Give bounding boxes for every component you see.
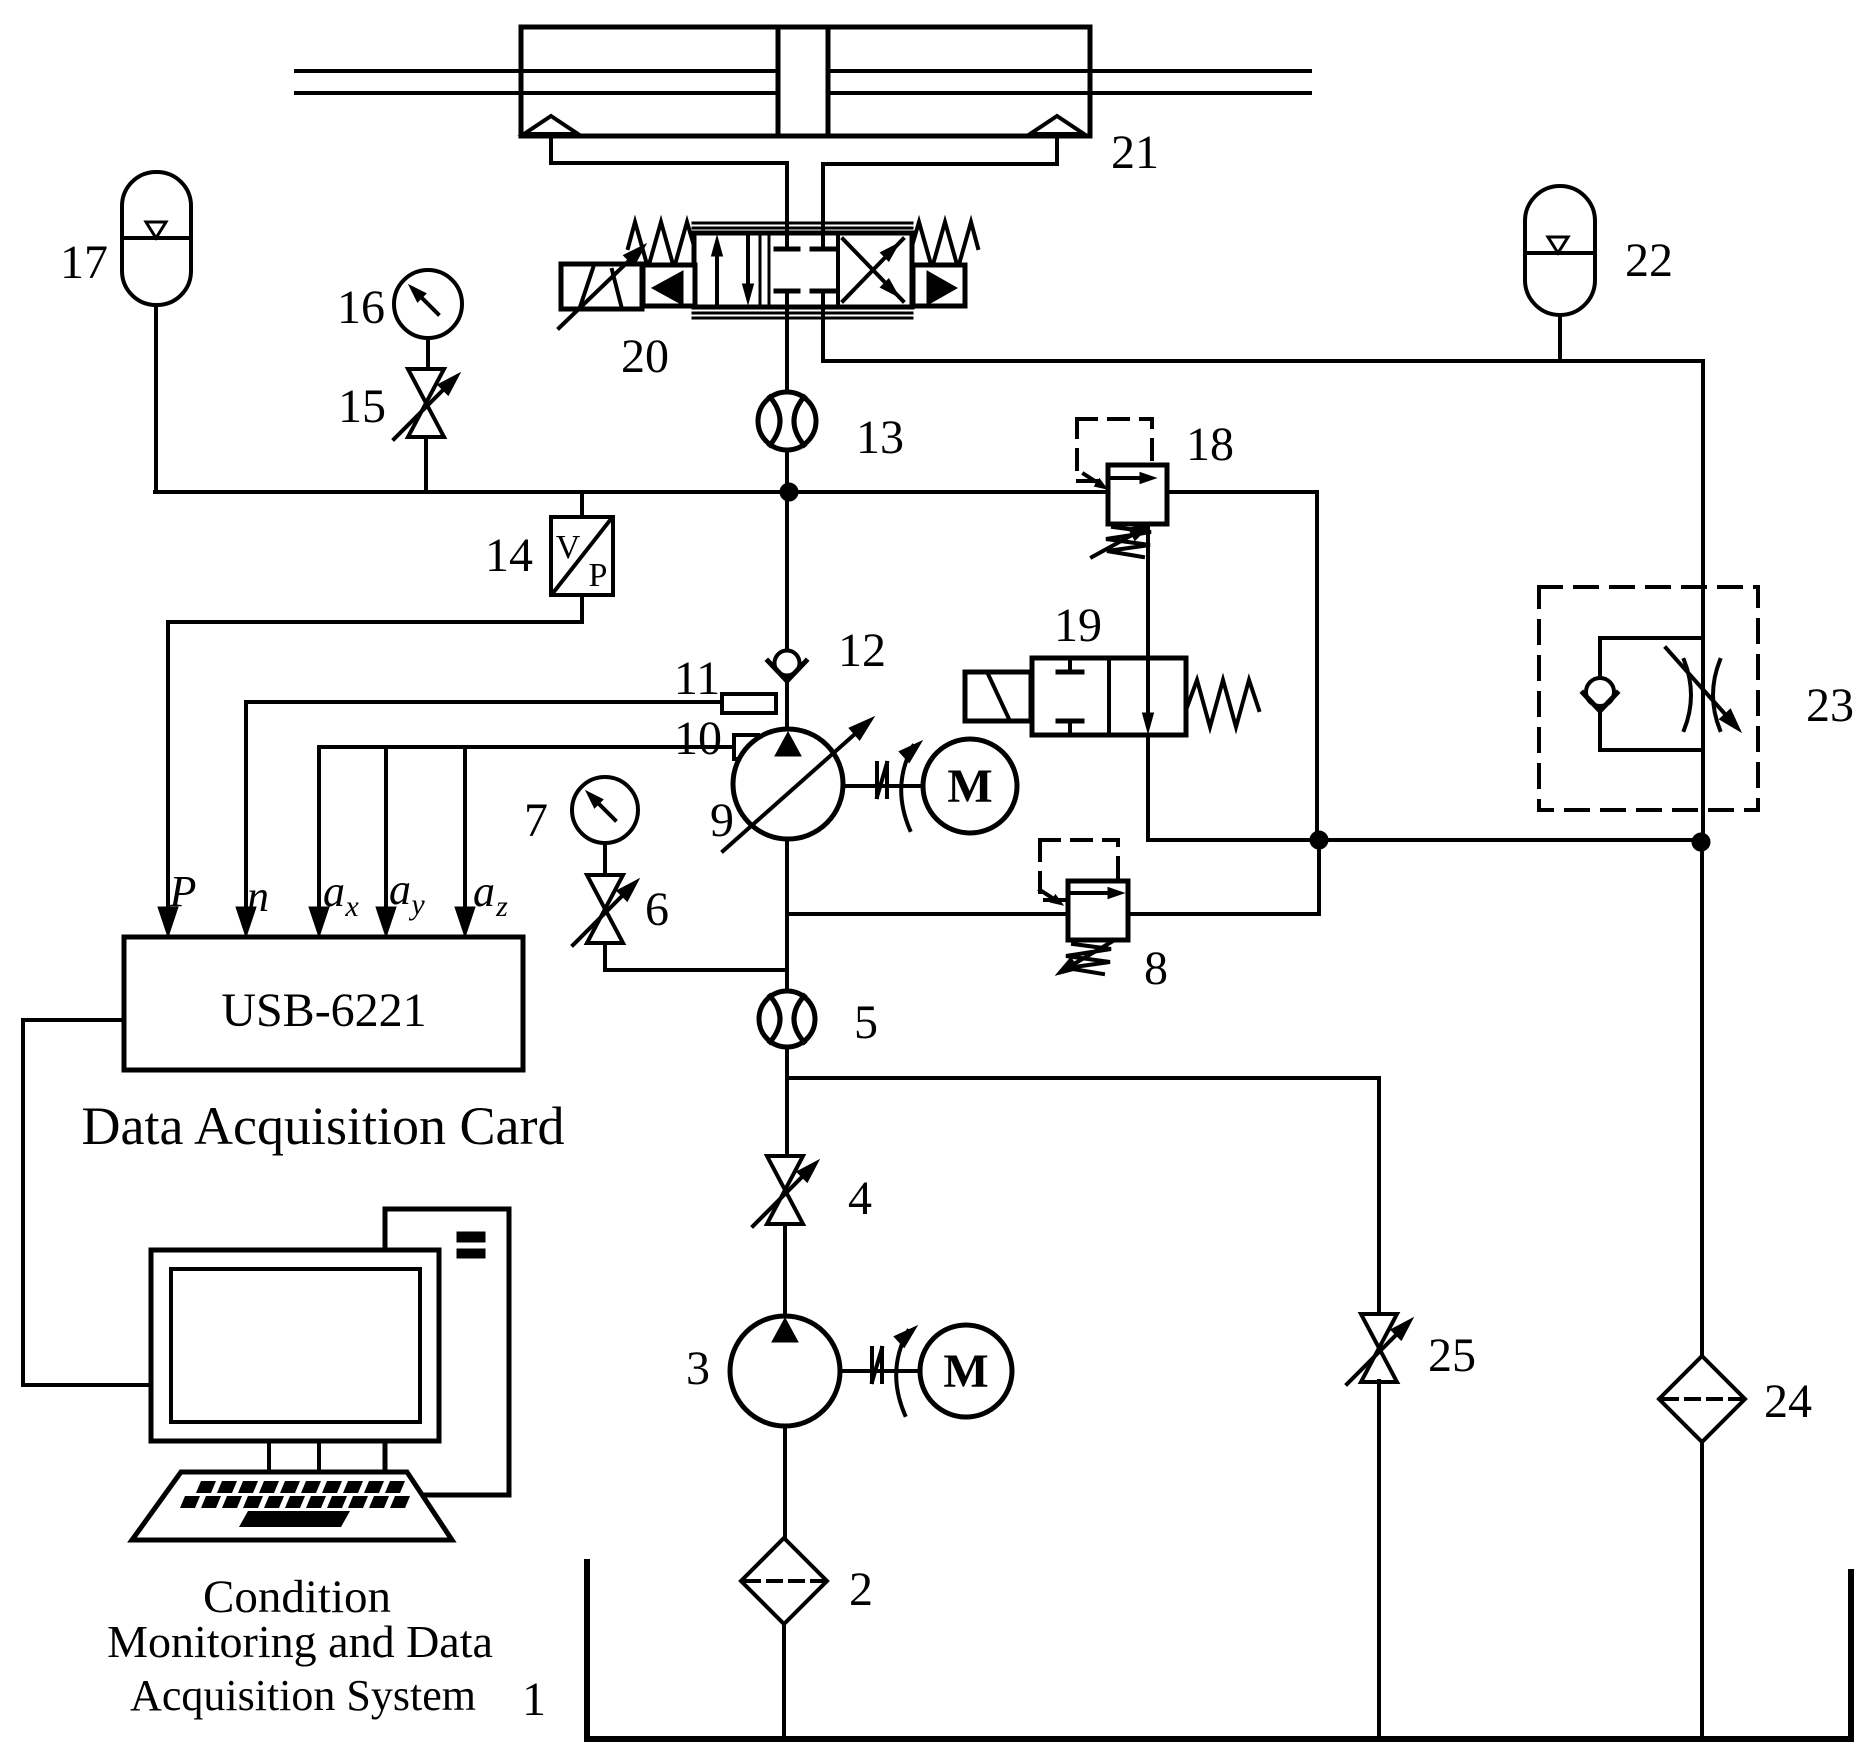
svg-text:12: 12 — [838, 624, 886, 677]
wire pump 3 to filter 2 — [783, 1426, 787, 1538]
wire branch to valve 25 — [787, 1078, 1379, 1314]
computer tower — [385, 1209, 509, 1495]
wire sensor 11 to DAQ n input — [236, 702, 722, 937]
pressure transducer 14 — [551, 492, 613, 595]
label 18 — [1186, 418, 1234, 471]
variable displacement pump 9 — [723, 717, 874, 851]
label P — [169, 867, 197, 916]
label 6 — [645, 883, 669, 936]
label 20 — [621, 330, 669, 383]
label 10 — [674, 712, 722, 765]
svg-text:2: 2 — [849, 1563, 873, 1616]
wire sensor 10 to DAQ accel inputs — [309, 747, 734, 937]
svg-text:11: 11 — [674, 652, 720, 705]
shaft coupling pump 3 to motor — [840, 1326, 920, 1415]
label 17 — [60, 236, 108, 289]
wire junction to check valve 12 — [785, 492, 789, 651]
label 15 — [338, 380, 386, 433]
svg-text:y: y — [408, 888, 425, 921]
relief valve 8 — [1040, 881, 1128, 975]
svg-text:x: x — [344, 890, 359, 923]
svg-text:4: 4 — [848, 1172, 872, 1225]
svg-text:3: 3 — [686, 1342, 710, 1395]
svg-text:6: 6 — [645, 883, 669, 936]
pilot dashed box valve 18 — [1077, 419, 1152, 481]
svg-text:23: 23 — [1806, 679, 1854, 732]
label 25 — [1428, 1329, 1476, 1382]
svg-text:9: 9 — [710, 794, 734, 847]
tank 1 — [587, 1562, 1851, 1739]
label 16 — [337, 281, 385, 334]
electric motor M lower — [920, 1325, 1012, 1417]
svg-text:5: 5 — [854, 996, 878, 1049]
check valve 12 — [768, 651, 806, 682]
wire check valve 12 to pump 9 — [785, 679, 789, 731]
svg-text:21: 21 — [1111, 126, 1159, 179]
relief valve 18 — [1084, 465, 1167, 557]
svg-text:a: a — [323, 867, 345, 916]
wire valve 4 to pump 3 — [783, 1224, 787, 1318]
svg-text:7: 7 — [524, 794, 548, 847]
filter 24 — [1659, 1356, 1745, 1442]
svg-text:14: 14 — [485, 529, 533, 582]
caption Data Acquisition Card — [82, 1096, 565, 1156]
node junction drain left — [1310, 831, 1328, 849]
fixed pump 3 — [730, 1316, 840, 1426]
wire cylinder left port to valve A — [551, 136, 787, 235]
svg-text:V: V — [556, 529, 581, 566]
caption Condition Monitoring and Data Acquisition System — [107, 1571, 493, 1720]
svg-text:Acquisition System: Acquisition System — [130, 1671, 476, 1720]
electric motor M upper — [923, 739, 1017, 833]
one-way throttle valve 23 — [1583, 638, 1741, 750]
label 12 — [838, 624, 886, 677]
throttle valve 25 — [1347, 1314, 1413, 1384]
wire valve 25 to tank — [1377, 1381, 1381, 1739]
accumulator 17 — [122, 172, 191, 305]
shaft coupling pump 9 to motor — [843, 741, 923, 830]
svg-text:25: 25 — [1428, 1329, 1476, 1382]
label ax — [323, 867, 359, 923]
wire pump line to valve 8 — [787, 912, 1068, 916]
wire flow meter 5 to valve 4 — [785, 1047, 789, 1158]
pressure gauge 7 — [572, 777, 638, 875]
wire DAQ to computer — [23, 1020, 150, 1385]
label 2 — [849, 1563, 873, 1616]
monitor stand — [269, 1441, 319, 1472]
4/3 proportional directional valve 20 — [559, 222, 978, 328]
label 9 — [710, 794, 734, 847]
label 21 — [1111, 126, 1159, 179]
svg-text:10: 10 — [674, 712, 722, 765]
label 4 — [848, 1172, 872, 1225]
wire valve 15 to bus — [424, 437, 428, 492]
svg-text:Data Acquisition Card: Data Acquisition Card — [82, 1096, 565, 1156]
throttle valve 15 — [394, 369, 460, 439]
label 22 — [1625, 234, 1673, 287]
wire filter 2 to tank — [782, 1624, 786, 1739]
svg-text:1: 1 — [522, 1673, 546, 1726]
label 24 — [1764, 1375, 1812, 1428]
svg-text:Monitoring and Data: Monitoring and Data — [107, 1616, 493, 1667]
wire valve 6 loop to pump suction — [605, 943, 787, 970]
label 19 — [1054, 599, 1102, 652]
pressure gauge 16 — [394, 270, 462, 370]
label 1 — [522, 1673, 546, 1726]
svg-text:a: a — [389, 865, 411, 914]
filter 2 — [741, 1538, 827, 1624]
wire return bus riser — [1701, 361, 1705, 842]
throttle valve 4 — [753, 1156, 819, 1226]
DAQ card box USB-6221 — [124, 937, 523, 1070]
svg-text:19: 19 — [1054, 599, 1102, 652]
label n — [247, 872, 269, 921]
flow meter 5 — [759, 991, 815, 1047]
svg-text:M: M — [947, 760, 992, 813]
wire valve 19 to drain manifold — [1148, 735, 1701, 840]
wire valve 18 to valve 19 — [1146, 524, 1150, 658]
wire valve 18 outlet — [1315, 492, 1319, 840]
svg-text:a: a — [473, 867, 495, 916]
svg-text:24: 24 — [1764, 1375, 1812, 1428]
accelerometer 10 — [734, 735, 758, 759]
wire junction to filter 24 — [1700, 842, 1704, 1356]
pilot dashed box valve 8 — [1040, 840, 1118, 900]
svg-text:22: 22 — [1625, 234, 1673, 287]
wire main pressure bus — [155, 490, 1317, 494]
wire valve20 T-port to top-right bus — [823, 305, 1703, 361]
wire accumulator 17 to bus — [154, 305, 158, 492]
label 7 — [524, 794, 548, 847]
dashed box 23 — [1539, 587, 1758, 810]
label 8 — [1144, 942, 1168, 995]
wire cylinder right port to valve B — [823, 136, 1057, 235]
svg-text:17: 17 — [60, 236, 108, 289]
node junction P-bus — [780, 483, 798, 501]
wire valve20 P-port to flow meter 13 — [785, 305, 789, 393]
throttle valve 6 — [573, 875, 639, 945]
wire filter 24 to tank — [1700, 1442, 1704, 1739]
speed sensor 11 — [722, 694, 776, 713]
svg-text:n: n — [247, 872, 269, 921]
accumulator 22 — [1525, 186, 1595, 315]
hydraulic cylinder 21 with piston and double rod — [296, 27, 1310, 136]
computer monitor — [151, 1250, 439, 1441]
label 23 — [1806, 679, 1854, 732]
label az — [473, 867, 508, 923]
wire pump 9 to flow meter 5 — [785, 839, 789, 992]
wire valve 8 to junction riser — [1128, 840, 1319, 914]
svg-text:P: P — [169, 867, 197, 916]
label 14 — [485, 529, 533, 582]
node junction drain right — [1692, 833, 1710, 851]
svg-text:z: z — [495, 890, 508, 923]
svg-text:M: M — [943, 1345, 988, 1398]
laptop keyboard — [132, 1472, 452, 1540]
svg-text:18: 18 — [1186, 418, 1234, 471]
svg-text:USB-6221: USB-6221 — [221, 984, 426, 1037]
label ay — [389, 865, 425, 921]
svg-text:15: 15 — [338, 380, 386, 433]
wire flow meter 13 to junction — [785, 450, 789, 492]
svg-text:20: 20 — [621, 330, 669, 383]
flow meter 13 — [758, 392, 816, 450]
2/2 solenoid valve 19 — [965, 658, 1259, 735]
label 3 — [686, 1342, 710, 1395]
svg-text:13: 13 — [856, 411, 904, 464]
label 11 — [674, 652, 720, 705]
svg-text:P: P — [589, 557, 608, 594]
label 5 — [854, 996, 878, 1049]
wire accumulator 22 to return bus — [1558, 315, 1562, 361]
wire sensor 14 to DAQ P input — [158, 595, 582, 937]
svg-text:8: 8 — [1144, 942, 1168, 995]
svg-text:16: 16 — [337, 281, 385, 334]
label 13 — [856, 411, 904, 464]
